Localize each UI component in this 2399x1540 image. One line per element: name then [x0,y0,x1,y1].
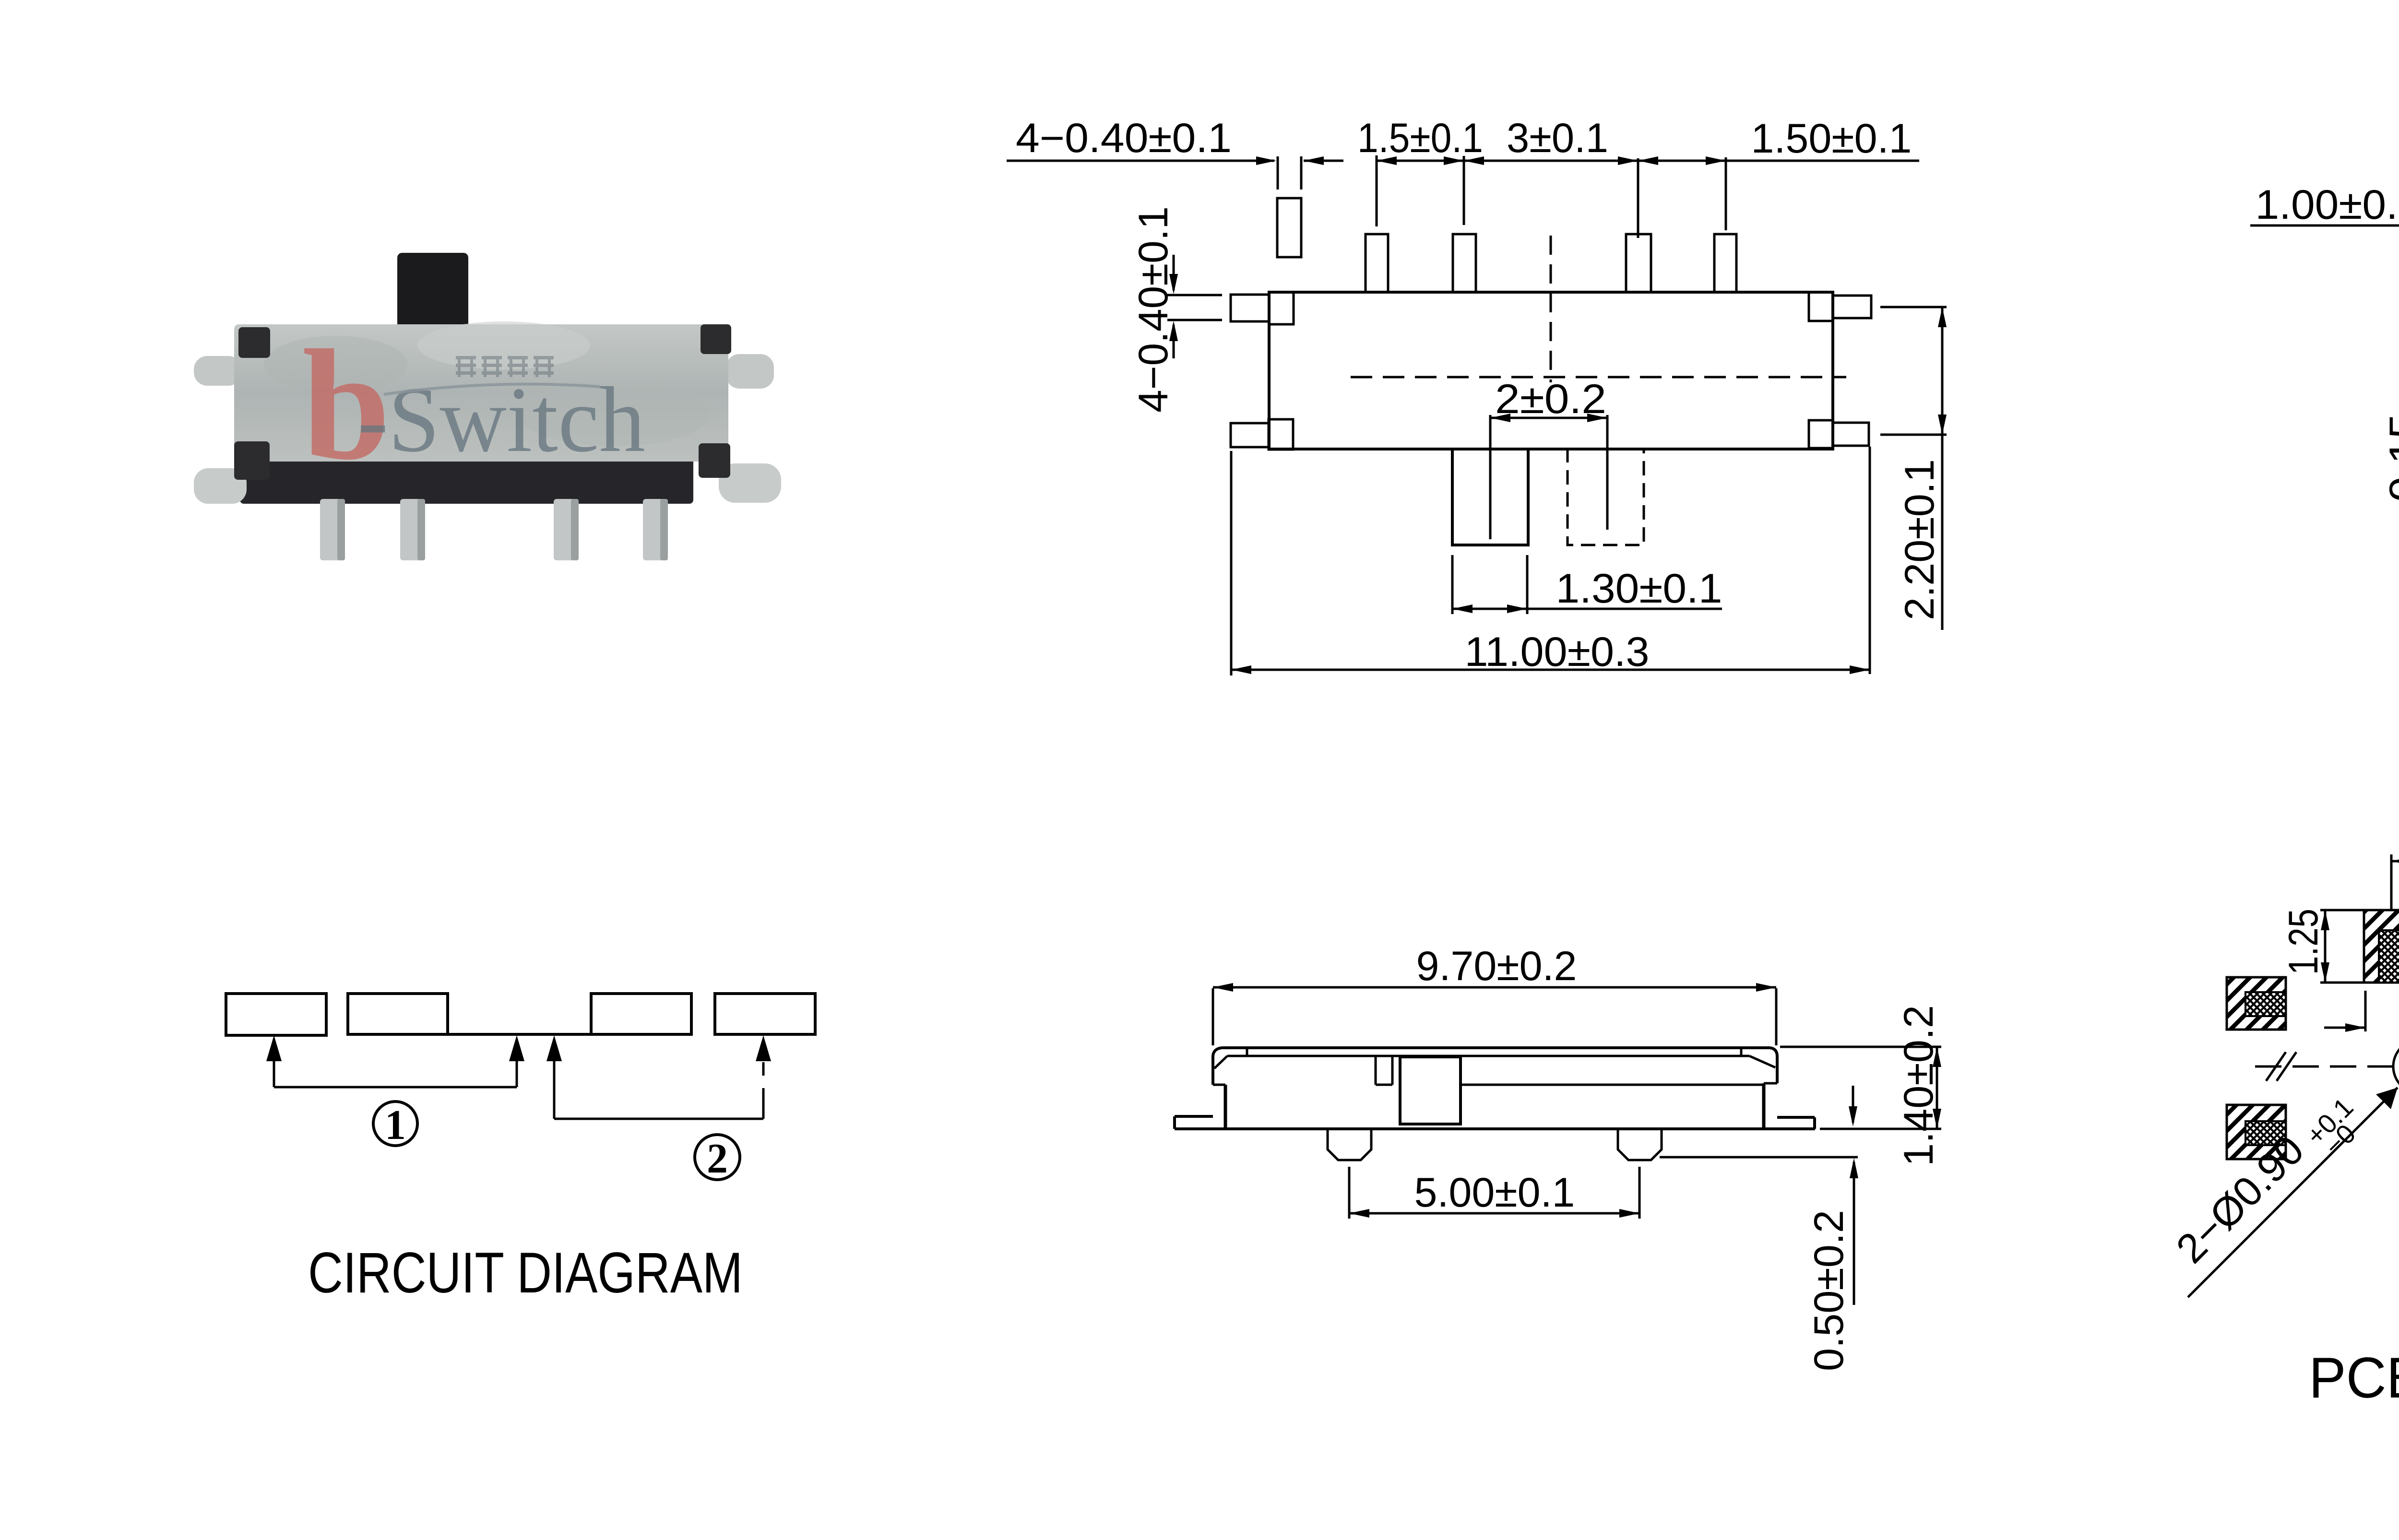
svg-text:1.40±0.2: 1.40±0.2 [1896,1005,1942,1166]
svg-text:1.00±0.2: 1.00±0.2 [2256,182,2399,228]
svg-text:1.25: 1.25 [2280,909,2327,975]
svg-text:4−0.40±0.1: 4−0.40±0.1 [1130,206,1176,413]
svg-text:2.20±0.1: 2.20±0.1 [1897,459,1943,620]
svg-text:5.00±0.1: 5.00±0.1 [1414,1170,1575,1216]
svg-text:11.00±0.3: 11.00±0.3 [1465,629,1650,675]
svg-text:0.50±0.2: 0.50±0.2 [1806,1210,1852,1371]
svg-text:3±0.1: 3±0.1 [1507,115,1608,161]
svg-text:2: 2 [707,1136,728,1182]
svg-text:1.5±0.1: 1.5±0.1 [1357,115,1483,161]
svg-text:1.30±0.1: 1.30±0.1 [1556,566,1722,612]
svg-text:1: 1 [385,1102,406,1149]
svg-text:9.70±0.2: 9.70±0.2 [1416,943,1577,989]
svg-text:1.50±0.1: 1.50±0.1 [1751,116,1912,162]
svg-text:0.15: 0.15 [2381,414,2399,502]
svg-text:4−0.40±0.1: 4−0.40±0.1 [1016,115,1232,161]
svg-text:CIRCUIT DIAGRAM: CIRCUIT DIAGRAM [308,1241,743,1305]
svg-text:PCB PLERTING PLAN: PCB PLERTING PLAN [2309,1346,2399,1410]
